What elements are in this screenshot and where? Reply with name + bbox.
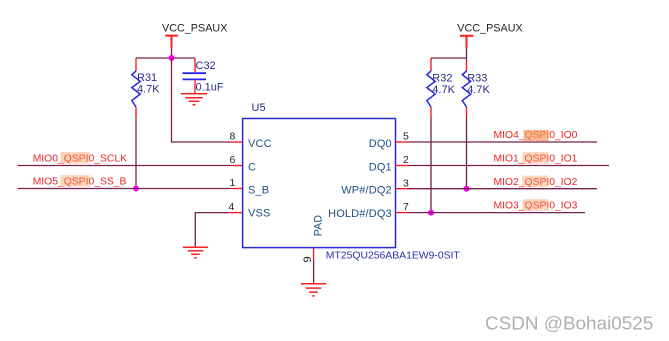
pin 7 stub bbox=[396, 212, 408, 214]
capacitor C32 leads (red) bbox=[194, 58, 196, 94]
svg-text:R33: R33 bbox=[467, 73, 487, 85]
pin 8 stub bbox=[230, 141, 242, 143]
net label MIO3_QSPI0_IO3 highlight bbox=[523, 199, 549, 211]
svg-text:6: 6 bbox=[229, 154, 235, 166]
net label MIO1_QSPI0_IO1 highlight bbox=[523, 152, 549, 164]
svg-text:DQ1: DQ1 bbox=[369, 162, 392, 174]
resistor R31 bbox=[132, 71, 160, 107]
wire: R31 bottom down to SS_B net bbox=[135, 118, 137, 189]
pin 2 stub bbox=[396, 165, 408, 167]
resistor R1 leads (red stubs) bbox=[135, 58, 137, 118]
wire: horizontal to R32 bbox=[431, 57, 467, 59]
wire: PAD to ground bbox=[313, 260, 315, 284]
wire MIO1_QSPI0_IO1 bbox=[408, 165, 610, 167]
svg-text:9: 9 bbox=[302, 256, 314, 262]
svg-text:3: 3 bbox=[403, 178, 409, 190]
wire MIO2_QSPI0_IO2 bbox=[408, 188, 598, 190]
pin 9 stub (PAD) bbox=[313, 248, 315, 260]
svg-text:4.7K: 4.7K bbox=[432, 84, 455, 96]
wire MIO4_QSPI0_IO0 bbox=[408, 141, 598, 143]
svg-text:DQ0: DQ0 bbox=[369, 138, 392, 150]
svg-text:2: 2 bbox=[403, 154, 409, 166]
node junction at (431,212.6) bbox=[428, 210, 434, 216]
svg-text:8: 8 bbox=[229, 131, 235, 143]
resistor R32 bbox=[427, 71, 456, 107]
op-amp U5 body bbox=[243, 119, 396, 248]
svg-text:S_B: S_B bbox=[248, 185, 269, 197]
net label MIO2_QSPI0_IO2 highlight bbox=[523, 176, 549, 188]
wire MIO0_QSPI0_SCLK bbox=[18, 165, 231, 167]
svg-text:VCC: VCC bbox=[248, 138, 272, 150]
power symbol VCC_PSAUX (right) bbox=[457, 22, 522, 48]
svg-text:WP#/DQ2: WP#/DQ2 bbox=[341, 185, 392, 197]
power symbol VCC_PSAUX (left) bbox=[162, 22, 227, 48]
ground (below C32) bbox=[181, 94, 208, 105]
svg-text:CSDN @Bohai0525: CSDN @Bohai0525 bbox=[485, 314, 653, 335]
svg-text:VCC_PSAUX: VCC_PSAUX bbox=[162, 22, 227, 34]
pin 4 stub bbox=[229, 212, 242, 214]
capacitor C32 bbox=[183, 60, 224, 93]
svg-text:U5: U5 bbox=[252, 102, 266, 114]
wire MIO5_QSPI0_SS_B bbox=[18, 188, 231, 190]
svg-text:4.7K: 4.7K bbox=[467, 84, 490, 96]
ground (below VSS wire) bbox=[183, 247, 208, 257]
pin 3 stub bbox=[396, 188, 408, 190]
ground (below PAD) bbox=[301, 284, 326, 296]
pin 6 stub bbox=[230, 165, 242, 167]
node junction at (136,188.5) bbox=[133, 186, 139, 192]
svg-text:7: 7 bbox=[403, 201, 409, 213]
svg-text:4: 4 bbox=[228, 201, 234, 213]
wire: horizontal R31 top to C32 top bbox=[136, 57, 195, 59]
svg-text:C32: C32 bbox=[196, 60, 216, 72]
pin 1 stub bbox=[230, 188, 242, 190]
net label MIO4_QSPI0_IO0 highlight (active) bbox=[524, 130, 549, 141]
svg-text:4.7K: 4.7K bbox=[137, 84, 160, 96]
svg-text:VCC_PSAUX: VCC_PSAUX bbox=[457, 22, 522, 34]
wire: junction down to pin 8 (VCC) bbox=[172, 58, 231, 142]
svg-text:R31: R31 bbox=[137, 72, 157, 84]
resistor R33 leads bbox=[466, 61, 468, 118]
svg-text:HOLD#/DQ3: HOLD#/DQ3 bbox=[328, 208, 392, 220]
node junction at (466.5,189) bbox=[464, 186, 470, 192]
wire: power stem to junction bbox=[171, 48, 173, 58]
svg-text:1: 1 bbox=[229, 177, 235, 189]
pin 5 stub bbox=[396, 141, 408, 143]
wire: right power stem bbox=[466, 48, 468, 61]
wire MIO3_QSPI0_IO3 bbox=[408, 212, 586, 214]
svg-text:C: C bbox=[248, 162, 256, 174]
resistor R32 leads bbox=[430, 58, 432, 118]
svg-text:R32: R32 bbox=[432, 73, 452, 85]
resistor R33 bbox=[462, 71, 490, 107]
svg-text:VSS: VSS bbox=[248, 208, 270, 220]
svg-text:PAD: PAD bbox=[313, 215, 325, 237]
wire: R32 bottom to IO3 net bbox=[430, 118, 432, 213]
wire: VSS pin 4 to ground bbox=[195, 213, 229, 247]
wire: R33 bottom to IO2 net bbox=[466, 118, 468, 189]
net label MIO5_QSPI0_SS_B highlight bbox=[61, 175, 90, 187]
node junction at (171.5,58) bbox=[169, 55, 175, 61]
svg-text:5: 5 bbox=[403, 131, 409, 143]
net label MIO0_QSPI0_SCLK highlight bbox=[61, 152, 90, 164]
svg-text:MT25QU256ABA1EW9-0SIT: MT25QU256ABA1EW9-0SIT bbox=[326, 250, 461, 261]
wire: junction to C32 corner bbox=[194, 57, 196, 59]
svg-text:0.1uF: 0.1uF bbox=[196, 81, 224, 93]
